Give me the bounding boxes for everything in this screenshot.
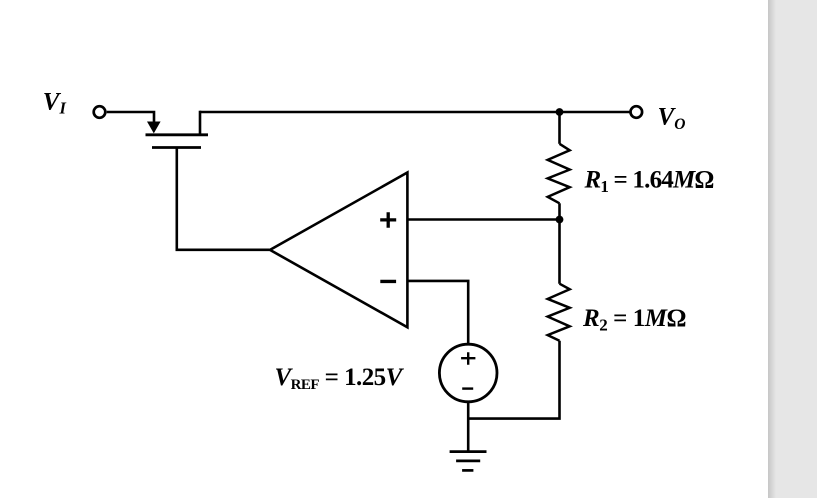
svg-text:R2 = 1MΩ: R2 = 1MΩ	[582, 305, 686, 335]
svg-text:VREF = 1.25V: VREF = 1.25V	[275, 364, 405, 393]
svg-text:VI: VI	[43, 89, 67, 118]
svg-text:VO: VO	[658, 104, 686, 133]
svg-text:R1 = 1.64MΩ: R1 = 1.64MΩ	[584, 167, 714, 197]
